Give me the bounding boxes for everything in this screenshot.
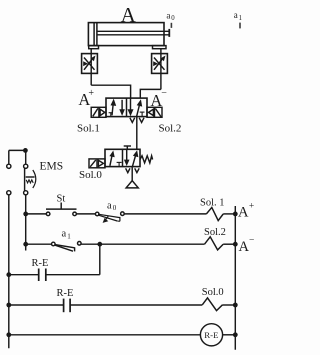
- rung 1 wire left: [26, 213, 47, 215]
- svg-text:0: 0: [171, 15, 175, 22]
- rung 4 wire right: [70, 304, 202, 306]
- label a0 (position mark): [166, 11, 175, 23]
- rung 5 wire to rail: [223, 334, 236, 336]
- wire FCV2 to valve V1 port B: [140, 89, 161, 98]
- svg-text:R-E: R-E: [32, 258, 49, 269]
- svg-text:a: a: [62, 228, 67, 239]
- rung 4 wire to rail: [223, 304, 236, 306]
- junction dot rung3/left rail: [6, 272, 11, 277]
- junction dot rung2/right rail: [233, 242, 238, 247]
- latch branch wire: [99, 244, 101, 275]
- cylinder left port stub: [89, 46, 99, 49]
- wire V1 supply to V0: [136, 117, 138, 150]
- supply terminal circles (left): [7, 164, 11, 195]
- cylinder A body: [88, 23, 164, 46]
- cylinder piston: [94, 23, 97, 46]
- valve V1 exhaust checks: [130, 118, 144, 123]
- rung 2 wire left: [26, 243, 52, 245]
- rung 1 wire right: [124, 213, 206, 215]
- rung 2 wire right: [81, 243, 204, 245]
- EMS switch: [24, 164, 36, 195]
- limit switch contact a1: [52, 242, 82, 252]
- svg-text:+: +: [88, 88, 94, 99]
- svg-text:Sol.0: Sol.0: [79, 169, 102, 181]
- valve V0 return spring: [140, 156, 153, 163]
- junction dot rung1/right rail: [233, 212, 238, 217]
- rung 3 wire right: [46, 274, 100, 276]
- label A+ (right rail): [238, 201, 254, 220]
- svg-text:A: A: [238, 205, 249, 221]
- svg-text:0: 0: [113, 204, 117, 212]
- svg-text:EMS: EMS: [40, 161, 64, 173]
- contact R-E (latch): [39, 269, 46, 282]
- label a1 (ladder): [62, 228, 72, 240]
- coil Sol.2 (zigzag): [205, 237, 224, 250]
- cylinder rod: [97, 29, 169, 37]
- svg-text:A: A: [239, 239, 250, 255]
- svg-text:Sol.2: Sol.2: [204, 227, 226, 238]
- junction dot latch branch: [97, 242, 102, 247]
- solenoid Sol.2 (right): [147, 107, 162, 117]
- relay coil R-E: [200, 324, 222, 346]
- rung 1 wire to rail: [223, 213, 235, 215]
- junction dot rung2/EMS rail: [23, 242, 28, 247]
- svg-text:Sol.2: Sol.2: [159, 123, 182, 135]
- EMS rail: [25, 150, 27, 250]
- rung 5 wire left: [9, 334, 201, 336]
- svg-text:1: 1: [239, 15, 242, 22]
- svg-text:Sol.0: Sol.0: [202, 287, 224, 298]
- wire cylinder left port to FCV1 and down: [90, 49, 92, 85]
- svg-text:a: a: [234, 10, 238, 20]
- junction dot rung5/right rail: [233, 332, 238, 337]
- wire cylinder right port through FCV2 down: [160, 49, 162, 90]
- rung 2 wire to rail: [223, 243, 235, 245]
- coil Sol.0 (zigzag): [202, 298, 222, 311]
- right rail: [234, 206, 236, 350]
- pushbutton St: [46, 203, 77, 216]
- valve V0 right position arrows: [124, 149, 138, 166]
- label A+ (valve V1 left): [78, 88, 94, 109]
- solenoid Sol.1 (left): [91, 107, 106, 117]
- valve V0 3/2 body: [105, 149, 140, 166]
- svg-text:a: a: [107, 200, 112, 211]
- junction dot rung4/right rail: [233, 303, 238, 308]
- svg-text:Sol.1: Sol.1: [77, 123, 100, 135]
- flow control valve FCV1 (left): [82, 54, 98, 74]
- label a1 (position mark): [234, 10, 242, 22]
- coil Sol.1 (zigzag): [206, 207, 223, 220]
- svg-text:−: −: [249, 235, 254, 245]
- cylinder right port stub: [153, 46, 167, 49]
- label a0 (ladder): [107, 200, 117, 212]
- junction dot top of EMS rail: [23, 148, 28, 153]
- svg-text:Sol. 1: Sol. 1: [200, 198, 225, 209]
- flow control valve FCV2 (right): [152, 54, 168, 74]
- rung 4 wire left: [9, 304, 64, 306]
- rung 3 wire left: [9, 274, 39, 276]
- valve V1 5/2 body: [106, 98, 147, 117]
- valve V0 blocked port T: [124, 146, 131, 149]
- a0 tick: [170, 23, 172, 28]
- svg-text:R-E: R-E: [57, 288, 74, 299]
- contact R-E (rung 4): [64, 299, 71, 313]
- svg-text:−: −: [161, 88, 167, 99]
- label A- (valve V1 right): [150, 88, 167, 110]
- svg-text:St: St: [57, 194, 66, 205]
- valve V1 right position arrows: [128, 98, 145, 117]
- svg-text:1: 1: [67, 232, 71, 240]
- valve V0 left position arrows: [109, 151, 121, 167]
- svg-text:R-E: R-E: [204, 330, 218, 340]
- rung 1 wire mid: [76, 213, 95, 215]
- solenoid Sol.0: [89, 159, 105, 168]
- wire FCV1 to valve V1 port A: [91, 85, 130, 98]
- valve V1 left position arrows: [109, 99, 125, 117]
- a1 tick: [239, 23, 241, 29]
- exhaust line and silencer triangle: [126, 167, 138, 188]
- label A- (right rail): [239, 235, 255, 255]
- svg-text:A: A: [121, 3, 137, 27]
- left supply rail: [8, 150, 10, 348]
- junction dot rung1/EMS rail: [23, 212, 28, 217]
- svg-text:a: a: [166, 11, 170, 21]
- limit switch contact a0: [95, 212, 124, 223]
- junction dot rung5/left rail: [6, 332, 11, 337]
- valve V0 exhaust checks: [126, 168, 140, 172]
- ladder top rail: [9, 149, 26, 151]
- junction dot rung4/left rail: [6, 303, 11, 308]
- svg-text:+: +: [249, 201, 254, 211]
